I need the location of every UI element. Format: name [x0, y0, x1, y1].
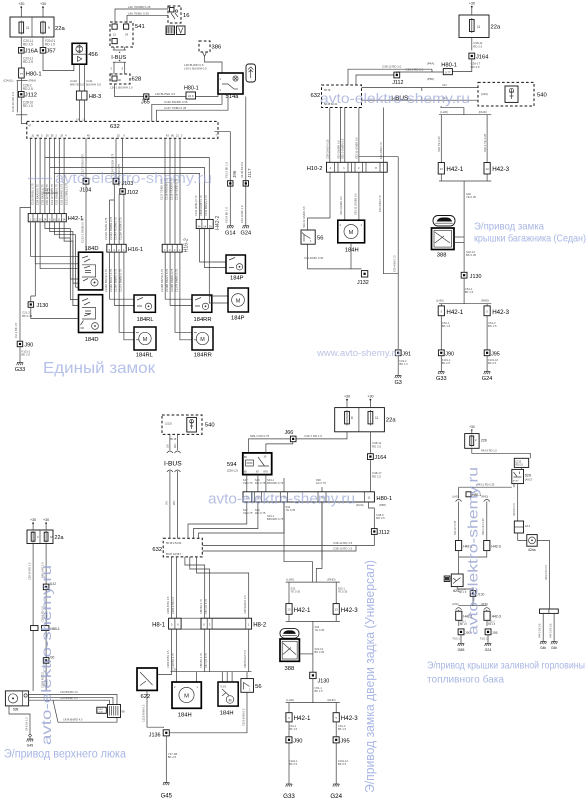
svg-text:GN: GN	[166, 444, 170, 448]
svg-text:C217B BN/BK 0.75: C217B BN/BK 0.75	[175, 268, 179, 292]
fuse box 22a (middle)	[335, 408, 397, 432]
wire J130 split LHD RHD	[463, 278, 465, 304]
svg-text:GN: GN	[164, 501, 168, 505]
svg-text:крышки багажника (Седан): крышки багажника (Седан)	[474, 233, 586, 245]
svg-text:56: 56	[317, 236, 323, 242]
svg-text:H80-1: H80-1	[26, 71, 42, 77]
display icons under 16	[166, 26, 185, 35]
svg-text:avto-elektro-shemy.ru: avto-elektro-shemy.ru	[320, 90, 470, 106]
svg-text:40: 40	[118, 78, 122, 82]
wire to 184P motor lower pin	[204, 267, 206, 269]
svg-text:R44 BK 0.5: R44 BK 0.5	[513, 503, 516, 516]
svg-text:(LHD): (LHD)	[452, 496, 459, 499]
svg-text:J57: J57	[46, 49, 55, 55]
svg-text:47: 47	[28, 124, 32, 128]
connector J102	[120, 189, 126, 195]
svg-text:Э/привод верхнего люка: Э/привод верхнего люка	[4, 749, 127, 761]
label box above relay	[514, 458, 528, 467]
svg-text:(226-L2): (226-L2)	[227, 469, 238, 473]
svg-text:+30: +30	[40, 2, 46, 6]
svg-text:WH: WH	[172, 501, 176, 505]
svg-text:M: M	[236, 299, 241, 305]
svg-text:YE 0.75: YE 0.75	[243, 481, 253, 485]
connector H42-3 wagon lower	[333, 713, 358, 722]
svg-text:J90: J90	[445, 351, 454, 357]
wires below H80-1 to 632 middle	[188, 502, 247, 538]
wire J65 to H80-1 pin	[149, 96, 186, 98]
svg-text:(RHD): (RHD)	[327, 578, 335, 582]
svg-text:C214A RD/BN 0.75: C214A RD/BN 0.75	[109, 216, 113, 240]
wires to J90 J95 fuel	[458, 620, 460, 626]
wires sunroof unit to connector	[29, 694, 117, 704]
wire left fuse to J66	[296, 432, 347, 439]
svg-text:Э/привод крышки заливной горло: Э/привод крышки заливной горловины	[427, 660, 585, 672]
wires to J90 J95 sedan	[440, 316, 442, 350]
connector H80-1 pin 24 9	[184, 86, 199, 100]
svg-text:RD 2.5: RD 2.5	[376, 516, 385, 520]
svg-text:184P: 184P	[231, 316, 245, 322]
svg-text:J90: J90	[24, 343, 33, 349]
svg-text:BK 2.5: BK 2.5	[22, 353, 31, 357]
wires below H8-1 H8-2	[157, 629, 171, 675]
lock switch 184RR	[192, 295, 212, 323]
svg-text:M: M	[143, 337, 148, 343]
svg-text:22a: 22a	[55, 26, 65, 32]
svg-text:594: 594	[227, 462, 237, 468]
ignition module 540 middle (dashed)	[162, 415, 215, 441]
I-BUS wires down to 632 middle	[167, 470, 173, 472]
svg-text:9: 9	[48, 26, 50, 30]
svg-text:C147 70/BU 0.35: C147 70/BU 0.35	[164, 106, 187, 110]
svg-text:G24: G24	[482, 376, 493, 382]
svg-text:L36-1 BU/WH 1.0: L36-1 BU/WH 1.0	[110, 86, 133, 90]
svg-text:C126 BK/BL 0.75: C126 BK/BL 0.75	[31, 183, 35, 205]
wires H16-2 to 184RR	[165, 252, 192, 299]
connector J90 wagon	[286, 737, 292, 743]
svg-text:S33-12 GN/BN 0.5: S33-12 GN/BN 0.5	[353, 193, 357, 215]
svg-text:G33: G33	[436, 376, 447, 382]
svg-text:99: 99	[122, 710, 126, 714]
remote receiver 514a	[218, 73, 243, 100]
svg-text:C132 (30BL) 0.75: C132 (30BL) 0.75	[194, 195, 198, 216]
svg-text:C216A BN/RD 0.75: C216A BN/RD 0.75	[114, 268, 118, 292]
ground G4b right	[551, 642, 558, 650]
svg-text:C86 BU 0.75: C86 BU 0.75	[199, 599, 203, 614]
svg-text:R44-2 BK 0.5: R44-2 BK 0.5	[539, 623, 542, 638]
svg-text:24 9: 24 9	[188, 94, 194, 98]
ground G14	[225, 226, 236, 237]
connector H42-3 sedan upper	[484, 163, 510, 175]
connector H16-1	[107, 244, 126, 252]
connector J132	[361, 271, 367, 277]
connector J42	[43, 584, 49, 590]
svg-text:G14: G14	[225, 230, 236, 236]
connector H16-2	[162, 244, 182, 252]
svg-text:+30: +30	[367, 395, 373, 399]
wire over to J91 column	[359, 157, 398, 274]
svg-text:540: 540	[537, 93, 547, 99]
bracket DASL/P8A under H80-1	[17, 80, 28, 82]
svg-text:J112: J112	[392, 80, 403, 86]
svg-text:RD 2.5: RD 2.5	[23, 42, 33, 46]
wires 632 middle to H8-1	[171, 557, 173, 618]
svg-text:85 87: 85 87	[513, 481, 519, 483]
arcs LHD split fuel upper	[456, 500, 462, 502]
svg-text:S33-11 GN/RD 0.5: S33-11 GN/RD 0.5	[302, 206, 306, 228]
wire C98 to row	[321, 487, 323, 492]
connector J130 sedan	[461, 272, 467, 278]
fuse box 22a (sunroof)	[27, 530, 64, 544]
wire H80-1 pin11 to J112	[369, 502, 375, 529]
fuel lid switch 624	[451, 574, 463, 593]
wire J42 down	[45, 590, 47, 626]
svg-text:G33: G33	[15, 367, 26, 373]
svg-text:C217A BN/BK 0.75: C217A BN/BK 0.75	[119, 269, 123, 292]
svg-text:BK 1.5: BK 1.5	[465, 290, 474, 294]
svg-text:RD 2.5: RD 2.5	[471, 65, 480, 69]
svg-text:J130: J130	[470, 274, 482, 280]
svg-text:BK 0.5: BK 0.5	[338, 762, 347, 766]
connector J95 sedan	[484, 350, 490, 356]
svg-text:9 77: 9 77	[445, 70, 451, 74]
connector strip H42-1	[28, 214, 66, 222]
trunk lock switch 388 sedan	[432, 228, 455, 259]
control module 541 (dashed)	[110, 22, 145, 47]
split bar LHD RHD wagon	[286, 581, 340, 583]
wires C38-12 C38-10 to 632	[202, 534, 374, 545]
svg-text:C26 BN/RD 4.0: C26 BN/RD 4.0	[60, 690, 78, 694]
wire 540 to split bar sedan	[441, 106, 464, 115]
svg-text:S32 YE 0.35: S32 YE 0.35	[437, 136, 441, 152]
svg-text:J130: J130	[37, 303, 49, 309]
624 side icon	[444, 576, 450, 582]
svg-text:628: 628	[132, 77, 142, 83]
wire 632 to G14	[215, 132, 231, 226]
svg-text:C28: C28	[172, 667, 177, 671]
svg-text:22a: 22a	[491, 25, 501, 31]
svg-text:C125A YE/BK 0.75: C125A YE/BK 0.75	[119, 217, 123, 240]
svg-text:11: 11	[375, 416, 379, 420]
svg-text:LC26: LC26	[98, 712, 104, 714]
wires H42 sedan merge bar	[440, 174, 442, 181]
wire sunroof unit to ground	[9, 706, 30, 734]
svg-text:L4b 70/BU 0.35: L4b 70/BU 0.35	[128, 11, 149, 15]
wire H10-2 to 56 switch	[308, 172, 330, 230]
svg-text:S33-1 GN/BN 0.5: S33-1 GN/BN 0.5	[341, 138, 345, 159]
connector H42-3 fuel lower	[484, 611, 501, 620]
svg-text:WH 0.75: WH 0.75	[255, 481, 266, 485]
svg-text:R43-5 RD 1.0: R43-5 RD 1.0	[481, 449, 497, 453]
svg-text:F23-2 BK 1.0: F23-2 BK 1.0	[225, 162, 229, 178]
svg-text:C86 BU 0.75: C86 BU 0.75	[199, 653, 203, 668]
svg-text:H42-1: H42-1	[294, 715, 311, 722]
svg-text:YE 0.35: YE 0.35	[286, 508, 296, 512]
svg-text:YE 0.35: YE 0.35	[338, 590, 348, 594]
connector J130 left	[28, 302, 33, 308]
svg-text:S33-12 GN/BN 0.5: S33-12 GN/BN 0.5	[355, 137, 359, 159]
svg-text:YE 0.35: YE 0.35	[315, 628, 325, 632]
svg-text:BK 1.5: BK 1.5	[442, 324, 451, 328]
svg-text:BK 0.35: BK 0.35	[466, 253, 476, 257]
svg-text:11: 11	[26, 26, 30, 30]
wire right fuse to J164 middle	[369, 432, 371, 454]
svg-text:G33: G33	[283, 793, 295, 800]
svg-text:622: 622	[141, 694, 151, 700]
svg-text:(P88): (P88)	[379, 503, 386, 507]
svg-text:RD 2.5: RD 2.5	[23, 87, 33, 91]
svg-text:C38-10 RD 1.5: C38-10 RD 1.5	[333, 546, 353, 550]
svg-text:+30: +30	[469, 425, 475, 429]
svg-text:C146 9W/RD 0.35: C146 9W/RD 0.35	[164, 100, 188, 104]
svg-text:M: M	[184, 694, 189, 700]
svg-text:C66B RD/BT 0.75: C66B RD/BT 0.75	[199, 195, 203, 216]
svg-text:RD 2.5: RD 2.5	[372, 444, 381, 448]
svg-text:(RHD): (RHD)	[481, 603, 488, 606]
svg-text:F101-1: F101-1	[453, 639, 461, 641]
wire 628 to J65	[115, 84, 144, 97]
wires 632 to H16-2	[164, 138, 166, 244]
svg-text:632: 632	[311, 93, 321, 99]
svg-text:BK 0.35: BK 0.35	[22, 314, 33, 318]
svg-text:184D: 184D	[85, 246, 99, 252]
connector H42-1 wagon upper	[286, 604, 311, 615]
tailgate lock unit 184H wagon switch	[218, 682, 238, 717]
svg-text:J102: J102	[127, 190, 139, 196]
svg-text:539: 539	[13, 708, 19, 712]
svg-text:(LHD): (LHD)	[440, 110, 448, 114]
antenna 514a whip	[246, 64, 256, 82]
ground G85 fuel	[458, 643, 465, 652]
svg-text:M: M	[349, 230, 354, 236]
tailgate lock switch 388 wagon	[280, 639, 299, 672]
ground G33 left	[15, 363, 26, 374]
instrument unit 16 (dashed)	[168, 6, 189, 23]
module 632 (sedan, dashed)	[311, 85, 362, 108]
wire label box to relay	[521, 467, 523, 469]
svg-text:J65: J65	[141, 100, 150, 106]
+30 feed right fuse	[40, 2, 46, 17]
svg-text:RD 1.5: RD 1.5	[45, 42, 55, 46]
svg-text:C218B BK/YE 0.75: C218B BK/YE 0.75	[160, 269, 164, 292]
svg-text:8: 8	[351, 416, 353, 420]
svg-text:9 3 8: 9 3 8	[221, 686, 227, 689]
wire 388 lower right pin	[454, 241, 464, 243]
connector J164 middle	[368, 454, 374, 460]
wires H16-1 to 184RL	[110, 252, 135, 299]
ground G45	[161, 783, 173, 800]
svg-text:456: 456	[88, 52, 98, 58]
connector J65	[144, 94, 149, 99]
wires H10-2 to 184H sedan	[344, 172, 346, 220]
svg-text:C28-10 RD 1.5: C28-10 RD 1.5	[28, 562, 32, 580]
svg-text:184H: 184H	[220, 711, 234, 717]
svg-text:H42-1: H42-1	[446, 166, 463, 173]
sunroof motor unit 539	[5, 691, 28, 712]
wire H10-2 right to J91 branch	[383, 172, 398, 349]
svg-text:J104: J104	[80, 188, 92, 194]
svg-text:J95: J95	[492, 631, 498, 635]
svg-text:C28 BU 0.75: C28 BU 0.75	[171, 653, 175, 668]
svg-text:22b: 22b	[481, 439, 487, 443]
wire 594 pin 30 up	[266, 442, 293, 453]
svg-text:18: 18	[50, 535, 53, 539]
svg-text:J132: J132	[357, 280, 369, 286]
fuse box 22a (right)	[459, 15, 501, 38]
split bar LHD RHD sedan	[439, 114, 491, 116]
wire 388 upper right pin	[454, 236, 464, 238]
svg-text:C31-83 BK 0.35: C31-83 BK 0.35	[304, 256, 324, 260]
wires 540 down with arcs	[169, 434, 171, 450]
wires to H42-2	[45, 158, 209, 220]
wire H42-1 pin1 to J90 branch	[30, 138, 32, 213]
svg-text:59 87 44 95 7: 59 87 44 95 7	[166, 553, 182, 556]
svg-text:S90-1 GY 0.35: S90-1 GY 0.35	[482, 518, 485, 535]
wire H80-1 to J112 to 632	[397, 72, 444, 75]
+30 feed	[469, 2, 475, 16]
svg-text:J66: J66	[285, 430, 294, 436]
wire 624 to J130 fuel	[457, 587, 473, 591]
svg-text:184H: 184H	[178, 713, 192, 719]
switch 56 sedan	[301, 230, 323, 244]
svg-text:514a: 514a	[226, 94, 240, 100]
svg-text:RD 2.5: RD 2.5	[23, 60, 33, 64]
svg-text:H42-3: H42-3	[491, 545, 500, 549]
connector H42-3 sedan lower	[484, 306, 510, 316]
+30 feeds middle	[344, 395, 350, 408]
svg-text:C38-12 RD 1.0: C38-12 RD 1.0	[382, 65, 402, 69]
svg-text:541: 541	[135, 24, 145, 30]
wire H80-1 to J112 with parallel return	[20, 78, 22, 92]
svg-text:BROWN 0.75: BROWN 0.75	[267, 481, 284, 485]
svg-text:(LHD): (LHD)	[286, 698, 294, 702]
svg-text:BN/YE 0.5: BN/YE 0.5	[70, 82, 84, 86]
svg-text:G4b: G4b	[551, 646, 557, 650]
lock motor 184RR	[192, 327, 213, 359]
svg-text:+30: +30	[469, 2, 475, 6]
svg-text:12: 12	[113, 33, 117, 37]
svg-text:C38-12 RD 1.5: C38-12 RD 1.5	[333, 541, 353, 545]
wire J130 wagon split	[312, 679, 314, 703]
svg-text:J164: J164	[476, 54, 489, 60]
module 632 middle (dashed)	[152, 538, 202, 557]
svg-text:540: 540	[205, 422, 215, 428]
connector J130 fuel	[470, 591, 476, 597]
wires 632 middle to H8-2	[185, 557, 205, 618]
svg-text:J164: J164	[375, 455, 387, 461]
svg-text:386: 386	[212, 45, 222, 51]
svg-text:G49: G49	[27, 743, 34, 747]
relay 529	[512, 469, 533, 483]
wire J66 to relay 594	[249, 439, 291, 453]
wire 632 to right branch	[382, 108, 384, 163]
connector J164	[469, 53, 475, 59]
svg-text:+30: +30	[18, 2, 24, 6]
svg-text:13: 13	[82, 117, 86, 121]
632 bottom pin numbers	[32, 135, 218, 138]
connector H42-3 fuel upper	[484, 541, 501, 551]
svg-text:C213-B BK 0.5: C213-B BK 0.5	[141, 704, 145, 722]
wires H42-1 down to 184D boxes direct	[31, 222, 79, 256]
svg-text:C141 BK/GN 0.75: C141 BK/GN 0.75	[204, 195, 208, 216]
connector J104	[83, 178, 89, 184]
wire relay to left column	[459, 486, 512, 488]
svg-text:avto-elektro-shemy.ru: avto-elektro-shemy.ru	[208, 492, 355, 508]
svg-text:RD 0.5: RD 0.5	[515, 464, 523, 467]
svg-text:22a: 22a	[55, 535, 64, 541]
ground G24 sedan	[482, 372, 493, 383]
svg-text:J112: J112	[25, 93, 37, 99]
connector J112	[19, 92, 25, 98]
wires split bar to H42 wagon	[288, 582, 290, 604]
svg-text:J96: J96	[232, 170, 237, 178]
svg-text:BK 0.35: BK 0.35	[315, 650, 325, 654]
svg-text:(AA17): (AA17)	[525, 479, 533, 482]
svg-text:BK 0.5: BK 0.5	[488, 361, 497, 365]
svg-text:G24: G24	[485, 648, 492, 652]
svg-text:C284-6 BK 0.5: C284-6 BK 0.5	[171, 596, 175, 614]
relay 594	[227, 453, 272, 475]
switch 622	[137, 668, 157, 700]
fuel lid motor 424a	[527, 535, 537, 552]
svg-text:J95: J95	[340, 738, 349, 744]
connector J57	[40, 48, 46, 54]
svg-text:C284-B BU 0.5: C284-B BU 0.5	[166, 650, 170, 668]
svg-text:H42-2: H42-2	[215, 216, 221, 230]
wire 56 down to J136 bus	[169, 692, 247, 733]
svg-text:WH 0.75: WH 0.75	[255, 511, 266, 515]
lock motor 184P	[228, 288, 248, 322]
svg-text:H80-1: H80-1	[376, 496, 392, 502]
wires to grounds fuel	[460, 635, 462, 643]
svg-text:H8-1: H8-1	[152, 622, 166, 628]
svg-text:J91: J91	[402, 351, 411, 357]
svg-text:(RHD): (RHD)	[327, 698, 335, 702]
svg-text:C39-7 RD 1.5: C39-7 RD 1.5	[304, 434, 322, 438]
stacked connector fuel	[514, 521, 530, 533]
svg-text:(RHD): (RHD)	[479, 110, 487, 114]
svg-text:GN: GN	[442, 83, 446, 87]
upper wire C38-12	[431, 69, 433, 72]
svg-text:184RL: 184RL	[136, 353, 154, 359]
svg-text:RD 2.5: RD 2.5	[473, 44, 482, 48]
connector H8-2	[181, 618, 267, 629]
svg-text:14: 14	[76, 117, 80, 121]
wires H42 fuel merge to 624	[458, 551, 460, 574]
svg-text:G3: G3	[394, 380, 401, 386]
svg-text:J90: J90	[293, 738, 302, 744]
ground G33 wagon	[283, 784, 295, 800]
svg-text:S99-1 RD 0.75: S99-1 RD 0.75	[250, 434, 270, 438]
diagnostic unit 628 (dashed)	[110, 74, 141, 84]
connector J103	[113, 178, 119, 184]
svg-text:16: 16	[183, 13, 189, 19]
svg-text:GU 0.75: GU 0.75	[316, 481, 327, 485]
connector J95 fuel	[485, 629, 491, 635]
ground G33 sedan	[436, 372, 447, 383]
connector H42-2	[196, 219, 213, 228]
svg-text:C213A YE/BL 0.75: C213A YE/BL 0.75	[104, 217, 108, 240]
svg-text:S32-1 YE 0.35: S32-1 YE 0.35	[483, 133, 487, 152]
svg-text:C213-B BK 0.5: C213-B BK 0.5	[241, 708, 245, 726]
wires 594 to H80-1 row	[246, 475, 248, 492]
wire J16A to H80-1	[20, 53, 22, 68]
+30 feeds sunroof	[30, 518, 36, 530]
svg-text:L36 BU/WH 0.5: L36 BU/WH 0.5	[155, 92, 175, 96]
antenna module 386 (dashed)	[199, 41, 221, 52]
svg-text:C88 BN/GY 0.5: C88 BN/GY 0.5	[243, 650, 247, 668]
svg-text:G4b: G4b	[540, 646, 546, 650]
svg-text:S33 GN/WH 0.5: S33 GN/WH 0.5	[336, 140, 340, 159]
